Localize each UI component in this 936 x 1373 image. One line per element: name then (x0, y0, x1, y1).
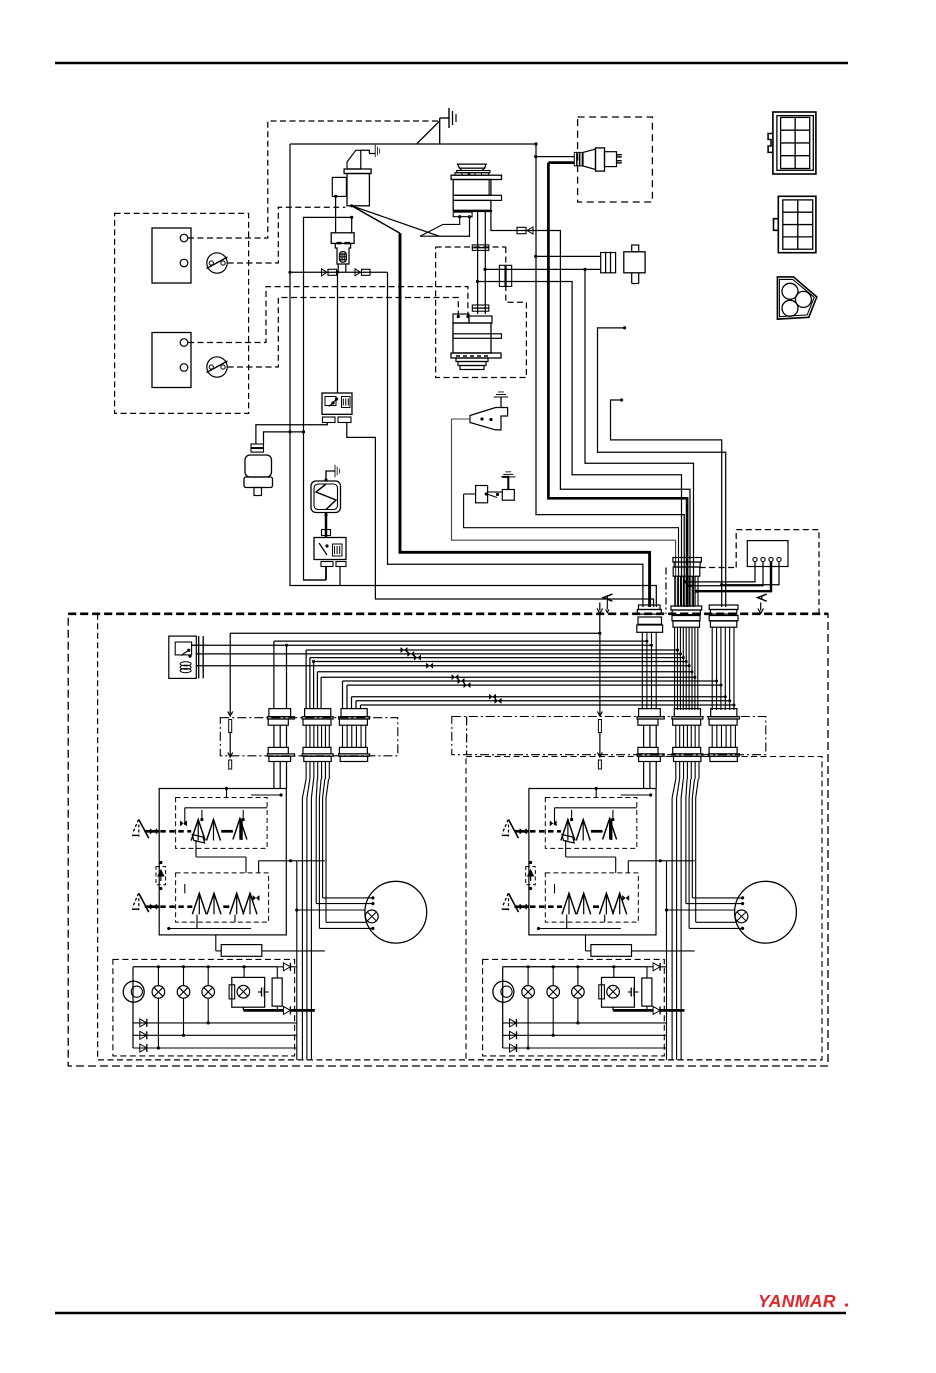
svg-text:YANMAR: YANMAR (758, 1291, 836, 1311)
